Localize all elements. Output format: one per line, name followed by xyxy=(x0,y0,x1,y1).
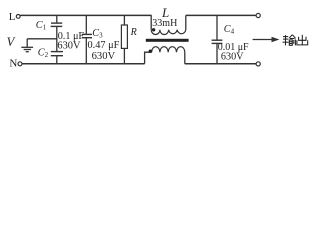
wire bottom-right xyxy=(185,63,256,65)
inductor top winding polarity dot xyxy=(152,28,155,31)
svg-text:N: N xyxy=(9,57,17,69)
inductor bottom winding xyxy=(152,47,185,53)
resistor R top lead wire xyxy=(123,15,125,25)
svg-text:L: L xyxy=(9,11,16,23)
node output bottom terminal circle xyxy=(256,62,260,66)
capacitor C3 plates xyxy=(82,34,92,37)
capacitor C2 plates xyxy=(51,52,63,56)
output arrow xyxy=(253,39,273,41)
capacitor C4 bottom lead wire xyxy=(216,43,218,63)
resistor R body xyxy=(121,25,127,48)
inductor top winding left lead xyxy=(150,15,152,29)
output label (shu) xyxy=(283,35,296,46)
svg-text:630V: 630V xyxy=(221,51,244,62)
inductor bottom winding left lead xyxy=(145,52,152,64)
wire top-right xyxy=(186,14,256,16)
node L terminal circle xyxy=(16,15,20,19)
svg-text:R: R xyxy=(130,27,137,38)
wire top-left (L line) xyxy=(20,14,151,16)
ground xyxy=(21,39,33,52)
output label (chu) xyxy=(297,35,308,45)
inductor bottom winding polarity dot xyxy=(149,50,152,53)
svg-text:33mH: 33mH xyxy=(152,18,177,29)
wire bottom-left (N line) xyxy=(22,63,144,65)
capacitor C3 bottom lead wire xyxy=(85,38,87,64)
inductor bottom winding right lead xyxy=(184,52,186,64)
capacitor C2 bottom lead wire xyxy=(56,56,58,64)
resistor R bottom lead wire xyxy=(123,48,125,63)
capacitor C3 top lead wire xyxy=(85,15,87,34)
svg-text:630V: 630V xyxy=(92,51,116,62)
node A ground branch wire xyxy=(27,38,57,40)
node N terminal circle xyxy=(18,62,22,66)
svg-text:0.47 μF: 0.47 μF xyxy=(88,40,120,51)
inductor top winding right lead xyxy=(185,15,187,29)
inductor top winding xyxy=(151,30,186,35)
svg-text:630V: 630V xyxy=(57,41,81,52)
inductor core xyxy=(146,39,189,42)
capacitor C1 top lead wire xyxy=(56,15,58,23)
capacitor C4 top lead wire xyxy=(216,15,218,40)
node output top terminal circle xyxy=(256,13,260,17)
wire C1 to node A xyxy=(56,26,58,51)
capacitor C1 plates xyxy=(51,23,63,26)
capacitor C4 plates xyxy=(212,40,223,43)
